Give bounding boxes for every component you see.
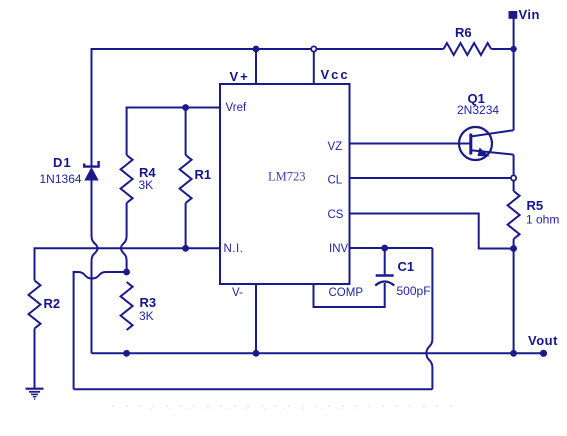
capacitor C1 top plate (376, 274, 394, 276)
terminal Vout dot (540, 350, 547, 357)
transistor Q1 emitter (471, 150, 514, 154)
wire R1 top (185, 108, 187, 156)
node V+ junction (253, 46, 260, 53)
wire R5 leads (513, 178, 515, 249)
node rail/R6 junction (510, 46, 516, 52)
wire CL (350, 177, 511, 179)
node CL/emitter open junction (511, 175, 516, 180)
svg-text:500pF: 500pF (397, 284, 431, 298)
node R5/Vout junction (510, 350, 517, 357)
resistor R4 (121, 155, 133, 203)
svg-text:C1: C1 (398, 259, 415, 274)
resistor R1 (180, 155, 192, 203)
faint artifact line (112, 405, 452, 407)
wire D1 hop over N.I. line (92, 236, 98, 261)
capacitor C1 curved plate (375, 282, 394, 286)
node R3/Vout junction (123, 350, 130, 357)
node INV/C1 junction (381, 245, 388, 252)
wire INV feedback drop with hop over Vout line (426, 248, 432, 389)
node Vcc open junction (311, 46, 316, 51)
wire VZ to Q1 base (350, 143, 471, 145)
svg-text:V+: V+ (230, 69, 250, 84)
wire D1 branch lower (91, 261, 93, 354)
svg-text:D1: D1 (53, 155, 72, 170)
resistor R5 (508, 191, 520, 239)
wire R5 node to Vout (513, 249, 515, 354)
wire COMP to C1 (314, 283, 385, 307)
resistor R3 (121, 282, 133, 330)
ground (26, 389, 44, 399)
wire V- stub down (255, 284, 257, 353)
svg-text:3K: 3K (139, 178, 154, 192)
transistor Q1 collector (471, 130, 514, 136)
svg-text:CL: CL (328, 175, 343, 187)
svg-text:Vin: Vin (519, 7, 541, 22)
node CS/R5 junction (510, 245, 517, 252)
svg-text:Vref: Vref (226, 102, 247, 114)
wire R2 to ground (34, 329, 36, 389)
wire Q1 collector riser (513, 49, 515, 130)
node R4/R3 junction (123, 269, 130, 276)
wire Vin drop (513, 18, 515, 49)
wire CS (350, 214, 514, 249)
diode D1 triangle (84, 167, 98, 181)
svg-text:VZ: VZ (328, 141, 343, 153)
svg-text:N.I.: N.I. (224, 243, 244, 255)
node V-/Vout junction (253, 350, 260, 357)
wire R4 bottom with hop over N.I. line (121, 203, 127, 272)
svg-text:R5: R5 (527, 198, 544, 213)
wire top rail right segment (491, 48, 513, 50)
svg-text:1 ohm: 1 ohm (526, 213, 559, 227)
svg-text:CS: CS (328, 209, 344, 221)
wire Vcc stub (313, 49, 315, 84)
wire C1 top lead (384, 248, 386, 275)
wire Q1 emitter to CL node (513, 155, 515, 178)
svg-text:1N1364: 1N1364 (40, 172, 82, 186)
wire INV (350, 247, 433, 249)
wire Vout line (92, 352, 544, 354)
transistor Q1 base bar (469, 134, 472, 155)
wire Vref (127, 108, 220, 156)
node R1/N.I. junction (182, 245, 189, 252)
svg-text:V-: V- (232, 287, 243, 299)
svg-text:R3: R3 (140, 295, 157, 310)
transistor Q1 circle (459, 127, 492, 160)
wire R3 feed with dip under D1 branch (74, 272, 127, 389)
svg-text:Vcc: Vcc (321, 67, 350, 82)
wire N.I. (35, 248, 221, 280)
wire D1 branch upper (91, 180, 93, 236)
wire bottom rail (74, 388, 433, 390)
svg-text:R1: R1 (195, 167, 212, 182)
svg-text:COMP: COMP (329, 287, 364, 299)
diode D1 zener bar (84, 161, 98, 167)
resistor R6 (444, 43, 492, 55)
svg-text:R6: R6 (455, 25, 472, 40)
svg-text:Vout: Vout (528, 333, 558, 348)
transistor Q1 emitter arrow (478, 148, 490, 157)
svg-text:3K: 3K (139, 309, 154, 323)
node Vref/R1 junction (182, 104, 189, 111)
IC U1 LM723 body (220, 84, 350, 284)
wire R1 bottom (185, 203, 187, 248)
terminal Vin square (509, 11, 518, 19)
wire V+ stub (255, 49, 257, 84)
svg-text:INV: INV (329, 243, 349, 255)
svg-text:R2: R2 (44, 296, 61, 311)
svg-text:2N3234: 2N3234 (457, 103, 499, 117)
resistor R2 (29, 281, 41, 329)
wire top rail left segment (92, 49, 444, 166)
svg-text:LM723: LM723 (268, 170, 306, 184)
